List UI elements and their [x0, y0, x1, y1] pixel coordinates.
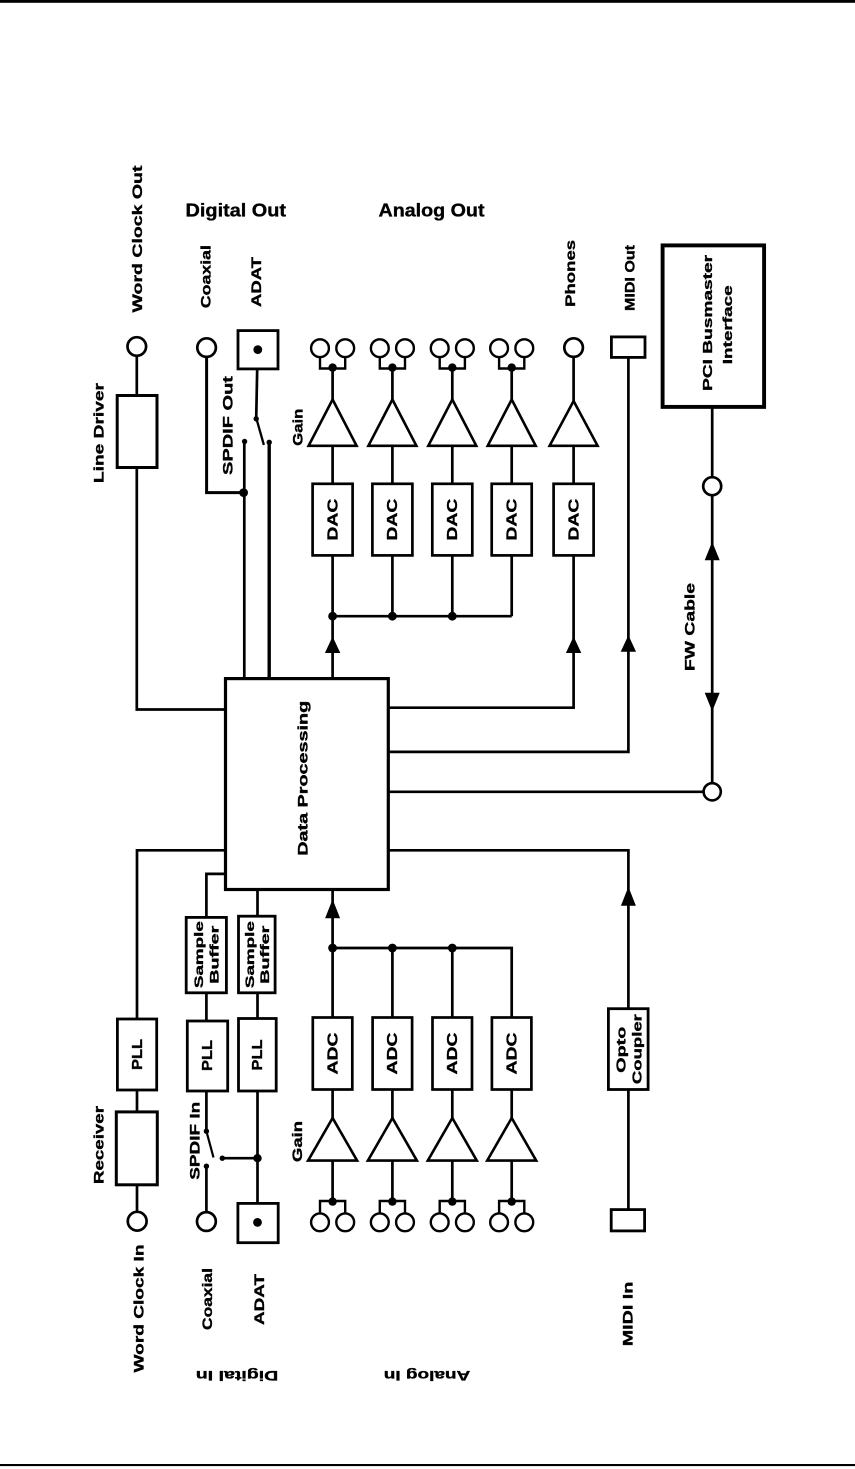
- connector pair analog in ch2: [371, 1213, 414, 1231]
- wire bus to ADC ch2: [391, 948, 394, 1018]
- sample buffer ADAT: [239, 916, 276, 993]
- wire sample buffer to PLL: [205, 993, 208, 1021]
- svg-text:MIDI Out: MIDI Out: [622, 245, 638, 311]
- wire amp to DAC phones: [572, 446, 575, 484]
- op-amp phones: [550, 401, 598, 446]
- svg-text:ADC: ADC: [504, 1032, 521, 1074]
- connector ADAT out: [238, 331, 278, 369]
- wire amp to DAC ch4: [510, 446, 513, 484]
- FW connector lower: [704, 783, 721, 800]
- wire switch to coaxial in connector: [205, 1166, 208, 1212]
- connector pair analog in ch3: [431, 1213, 474, 1231]
- svg-text:FW Cable: FW Cable: [682, 583, 698, 671]
- label ADAT (out): [248, 256, 264, 307]
- wire bracket to amp ch2: [391, 369, 394, 401]
- op-amp analog in ch4: [487, 1118, 536, 1161]
- label Coaxial (out): [197, 245, 213, 308]
- svg-text:ADC: ADC: [384, 1032, 401, 1074]
- svg-text:Coupler: Coupler: [629, 1014, 644, 1084]
- connector pair analog out ch4: [490, 339, 533, 357]
- op-amp analog in ch2: [368, 1118, 417, 1161]
- wire bracket to amp ch3: [451, 369, 454, 401]
- receiver box: [116, 1112, 157, 1185]
- wire opto coupler to MIDI in connector: [627, 1090, 630, 1210]
- junction dot ADAT branch: [253, 1154, 261, 1162]
- connector Phones: [564, 338, 583, 357]
- wire data processing to MIDI out with arrow: [389, 357, 637, 752]
- label SPDIF Out: [219, 376, 235, 475]
- label Gain (out): [289, 409, 305, 446]
- label Analog In (rotated): [384, 1368, 471, 1384]
- wire data processing to phones DAC with arrow: [389, 555, 582, 707]
- junction dot ADC bus ch3: [448, 944, 457, 953]
- junction dot ADC bus ch1: [328, 944, 337, 953]
- ADC ch1: [313, 1018, 353, 1090]
- FW connector upper: [703, 477, 721, 495]
- svg-text:SPDIF In: SPDIF In: [187, 1102, 203, 1180]
- svg-text:PCI Busmaster: PCI Busmaster: [700, 255, 715, 391]
- ADC ch3: [433, 1018, 473, 1090]
- DAC ch3: [432, 484, 472, 556]
- label ADAT (in): [251, 1273, 267, 1325]
- svg-text:Opto: Opto: [613, 1027, 628, 1073]
- wire DAC to bus ch4: [510, 555, 513, 616]
- svg-text:Data Processing: Data Processing: [295, 701, 310, 856]
- svg-text:DAC: DAC: [384, 498, 401, 540]
- connector pair analog out ch3: [431, 339, 474, 357]
- input switch branch wire: [222, 1157, 257, 1160]
- wire bracket to amp ch1: [331, 369, 334, 401]
- data processing box: [226, 679, 389, 890]
- wire ADC to amp ch1: [331, 1090, 334, 1120]
- connector Word Clock In: [128, 1212, 147, 1231]
- PLL ADAT: [239, 1019, 277, 1092]
- svg-text:DAC: DAC: [444, 498, 461, 540]
- FW cable wire with two arrows: [705, 495, 720, 783]
- connector Word Clock Out: [128, 337, 147, 356]
- input switch blade: [206, 1131, 213, 1157]
- op-amp analog out ch1: [309, 400, 357, 446]
- label Digital In (rotated): [196, 1368, 279, 1384]
- op-amp analog out ch2: [368, 400, 416, 446]
- wire DAC to bus ch1: [331, 555, 334, 616]
- bracket analog out ch3: [440, 356, 465, 372]
- wire sample buffer to PLL ADAT: [256, 993, 259, 1019]
- svg-text:Digital In: Digital In: [196, 1368, 279, 1384]
- label Line Driver: [91, 382, 107, 483]
- wire data processing to sample buffer ADAT: [256, 890, 259, 917]
- svg-text:Receiver: Receiver: [91, 1105, 107, 1184]
- svg-text:Gain: Gain: [289, 1121, 305, 1162]
- wire amp to DAC ch1: [331, 446, 334, 484]
- label SPDIF In: [187, 1102, 203, 1180]
- wire PLL to ADAT in connector: [256, 1091, 259, 1203]
- DAC ch2: [372, 484, 412, 556]
- wire PLL to input switch: [205, 1091, 208, 1131]
- switch contact dot B: [267, 440, 272, 445]
- junction dot SPDIF out: [239, 488, 248, 497]
- op-amp analog in ch1: [308, 1118, 357, 1161]
- bracket analog in ch2: [380, 1197, 405, 1213]
- PLL word clock: [117, 1019, 156, 1090]
- wire PLL to receiver: [136, 1090, 139, 1112]
- svg-text:PLL: PLL: [199, 1040, 216, 1071]
- junction dot DAC bus ch2: [388, 612, 397, 621]
- wire FW to data processing: [389, 790, 704, 793]
- bracket analog out ch1: [320, 356, 345, 372]
- svg-text:Digital Out: Digital Out: [186, 199, 287, 220]
- ADC ch2: [373, 1018, 413, 1090]
- connector pair analog in ch1: [311, 1213, 354, 1231]
- label MIDI In: [619, 1282, 635, 1347]
- svg-text:Coaxial: Coaxial: [197, 245, 213, 308]
- label Digital Out: [186, 199, 287, 220]
- input switch pivot dot: [204, 1129, 209, 1134]
- wire amp to DAC ch3: [451, 446, 454, 484]
- wire word clock in to data processing: [137, 850, 226, 1019]
- wire data processing to DAC bus with arrow: [325, 616, 340, 678]
- wire data processing to sample buffer SPDIF: [206, 874, 225, 918]
- connector MIDI Out: [611, 337, 645, 358]
- junction dot DAC bus ch1: [328, 612, 337, 621]
- bracket analog out ch2: [380, 356, 405, 372]
- DAC ch1: [313, 484, 353, 556]
- wire amp to bracket ch1: [331, 1161, 334, 1201]
- svg-text:PLL: PLL: [129, 1039, 146, 1070]
- svg-text:Interface: Interface: [720, 285, 735, 364]
- svg-text:Gain: Gain: [289, 409, 305, 446]
- wire ADC to amp ch4: [510, 1090, 513, 1120]
- wire SPDIF line to data processing: [243, 441, 246, 678]
- bracket analog in ch1: [320, 1197, 345, 1213]
- DAC ch4: [492, 484, 532, 556]
- label Phones: [562, 240, 578, 307]
- wire coaxial to junction: [207, 357, 244, 493]
- svg-text:ADC: ADC: [444, 1032, 461, 1074]
- connector pair analog out ch1: [311, 339, 354, 357]
- DAC bus wire: [333, 615, 512, 618]
- svg-text:Word Clock In: Word Clock In: [130, 1245, 146, 1373]
- svg-text:Word Clock Out: Word Clock Out: [129, 165, 145, 312]
- wire ADAT to switch: [256, 369, 257, 419]
- wire: [135, 356, 138, 397]
- PLL SPDIF: [187, 1021, 227, 1091]
- wire PCI to FW connector: [711, 407, 714, 477]
- connector MIDI In: [611, 1210, 644, 1231]
- svg-text:PLL: PLL: [249, 1040, 266, 1071]
- connector pair analog out ch2: [371, 339, 414, 357]
- wire ADC to amp ch3: [451, 1090, 454, 1120]
- connector Coaxial in: [197, 1212, 216, 1231]
- opto coupler box: [608, 1009, 648, 1090]
- PCI busmaster interface box: [663, 245, 765, 407]
- DAC phones: [554, 484, 594, 556]
- wire amp to bracket ch2: [391, 1161, 394, 1201]
- label Word Clock In: [130, 1245, 146, 1373]
- connector Coaxial out: [197, 338, 216, 357]
- op-amp analog in ch3: [428, 1118, 477, 1161]
- svg-text:Analog In: Analog In: [384, 1368, 471, 1384]
- svg-text:ADAT: ADAT: [248, 256, 264, 307]
- label FW Cable: [682, 583, 698, 671]
- wire ADC bus to data processing with arrow: [325, 890, 340, 949]
- svg-text:DAC: DAC: [324, 498, 341, 540]
- label Coaxial (in): [199, 1268, 215, 1330]
- sample buffer SPDIF: [186, 917, 226, 992]
- bracket analog in ch4: [499, 1197, 524, 1213]
- svg-text:SPDIF Out: SPDIF Out: [219, 376, 235, 475]
- svg-text:Analog Out: Analog Out: [379, 199, 485, 220]
- connector ADAT in: [238, 1203, 278, 1242]
- wire DAC to bus ch2: [391, 555, 394, 616]
- wire amp to bracket ch3: [451, 1161, 454, 1201]
- wire amp to bracket ch4: [510, 1161, 513, 1201]
- svg-text:DAC: DAC: [565, 498, 582, 540]
- line driver box: [117, 396, 157, 468]
- wire word clock out to data processing: [137, 468, 226, 710]
- svg-text:Sample: Sample: [243, 921, 257, 989]
- junction dot ADC bus ch2: [388, 944, 397, 953]
- wire bus to ADC ch3: [451, 948, 454, 1018]
- input switch contact dot: [204, 1164, 209, 1169]
- bracket analog out ch4: [499, 356, 524, 372]
- switch blade: [256, 419, 264, 445]
- label Receiver: [91, 1105, 107, 1184]
- ADC ch4: [492, 1018, 532, 1090]
- switch contact dot A: [242, 439, 247, 444]
- label MIDI Out: [622, 245, 638, 311]
- svg-text:Buffer: Buffer: [258, 925, 272, 984]
- wire DAC to bus ch3: [451, 555, 454, 616]
- svg-text:MIDI In: MIDI In: [619, 1282, 635, 1347]
- wire ADAT line to data processing: [268, 442, 271, 678]
- connector pair analog in ch4: [490, 1213, 533, 1231]
- branch contact dot: [220, 1156, 225, 1161]
- svg-text:Sample: Sample: [192, 921, 206, 989]
- wire phones connector to amp: [572, 357, 575, 402]
- wire bus to ADC ch1: [331, 948, 334, 1018]
- svg-text:Coaxial: Coaxial: [199, 1268, 215, 1330]
- wire bracket to amp ch4: [510, 369, 513, 401]
- op-amp analog out ch3: [428, 400, 476, 446]
- bracket analog in ch3: [440, 1197, 465, 1213]
- svg-text:Line Driver: Line Driver: [91, 382, 107, 483]
- svg-text:Buffer: Buffer: [207, 925, 221, 984]
- svg-text:DAC: DAC: [504, 498, 521, 540]
- label Word Clock Out: [129, 165, 145, 312]
- junction dot DAC bus ch3: [448, 612, 457, 621]
- wire MIDI in to data processing with arrow: [389, 850, 636, 1008]
- svg-text:ADC: ADC: [324, 1032, 341, 1074]
- wire amp to DAC ch2: [391, 446, 394, 484]
- ADC bus wire: [333, 948, 512, 1018]
- label Analog Out: [379, 199, 485, 220]
- op-amp analog out ch4: [488, 400, 536, 446]
- label Gain (in): [289, 1121, 305, 1162]
- wire ADC to amp ch2: [391, 1090, 394, 1120]
- switch pivot dot: [254, 416, 259, 421]
- svg-text:Phones: Phones: [562, 240, 578, 307]
- wire receiver to connector: [136, 1185, 139, 1212]
- svg-text:ADAT: ADAT: [251, 1273, 267, 1325]
